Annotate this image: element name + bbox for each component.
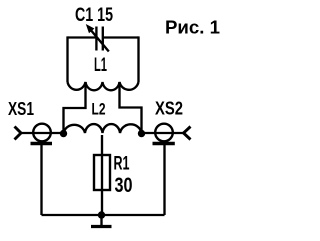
inductor L1 [68,82,139,90]
svg-text:Рис. 1: Рис. 1 [165,18,220,38]
socket XS1 [31,124,53,144]
svg-text:R1: R1 [114,154,130,175]
ground node junction dot [98,211,105,218]
socket XS2 [153,124,175,144]
pin arrow into XS2 [184,127,191,140]
resistor R1 [94,155,110,190]
wire right side of tank loop [137,36,139,82]
wire ground bus [42,214,165,216]
node B junction dot [138,130,145,137]
svg-text:L1: L1 [94,55,107,76]
svg-text:XS2: XS2 [155,99,183,119]
wire left side of tank loop [66,36,68,82]
svg-text:C1 15: C1 15 [75,4,113,26]
pin arrow into XS1 [15,127,22,140]
wire XS2 shield drop [163,145,165,215]
wire XS1 shield drop [40,145,42,215]
wire top-right of tank loop [103,36,139,38]
wire from pin through XS1 to node A [20,132,64,134]
wire right tap from L1 to node B [120,82,142,133]
wire left tap from L1 to node A [64,82,86,133]
svg-text:XS1: XS1 [8,99,34,119]
capacitor C1 (variable) [90,27,109,52]
node A junction dot [60,130,67,137]
inductor L2 [64,124,142,133]
svg-text:L2: L2 [92,101,106,119]
capacitor C1 arrowhead [86,24,95,33]
wire from node B through XS2 to pin [142,132,185,134]
wire R1 lead through body [101,135,103,215]
svg-text:30: 30 [115,174,133,197]
wire top-left of tank loop [68,36,97,38]
ground [91,215,112,227]
